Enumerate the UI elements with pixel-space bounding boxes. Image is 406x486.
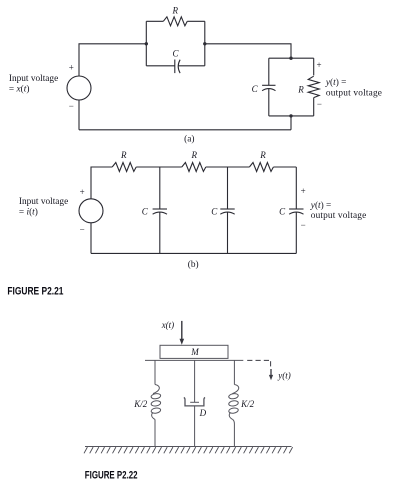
- svg-text:+: +: [317, 60, 322, 70]
- svg-text:y(t) =: y(t) =: [310, 200, 332, 211]
- svg-text:C: C: [252, 84, 259, 94]
- svg-text:FIGURE P2.21: FIGURE P2.21: [7, 285, 64, 297]
- wire: [145, 21, 147, 66]
- label Input voltage = x(t): [9, 74, 58, 95]
- svg-text:K/2: K/2: [133, 399, 148, 409]
- right rod lower: [233, 419, 235, 446]
- svg-text:x(t): x(t): [161, 320, 175, 330]
- wire: [178, 65, 205, 67]
- wire: [295, 167, 297, 209]
- node junction dot: [203, 42, 206, 45]
- svg-text:output voltage: output voltage: [326, 88, 382, 98]
- wire: [159, 167, 161, 209]
- ground hatching: [84, 447, 293, 453]
- wire: [146, 65, 175, 67]
- svg-text:= i(t): = i(t): [19, 207, 38, 218]
- capacitor C (a) parallel bottom: [175, 60, 180, 74]
- wire: [295, 212, 297, 253]
- capacitor C2 (b): [220, 209, 234, 214]
- wire: [146, 20, 163, 22]
- svg-text:R: R: [120, 150, 127, 160]
- svg-text:−: −: [317, 99, 322, 109]
- wire: [268, 58, 270, 85]
- svg-text:y(t): y(t): [277, 370, 291, 380]
- wire: [79, 44, 146, 76]
- wire: [204, 21, 206, 66]
- node junction dot: [289, 57, 292, 60]
- svg-text:R: R: [191, 150, 198, 160]
- svg-text:R: R: [172, 6, 179, 16]
- wire: [79, 129, 291, 131]
- capacitor C3 (b) output: [289, 209, 303, 214]
- left spring K/2: [151, 385, 161, 420]
- wire: [269, 57, 314, 59]
- svg-text:= x(t): = x(t): [9, 83, 30, 94]
- wire: [227, 167, 229, 209]
- wire: [159, 212, 161, 253]
- capacitor C (a) output: [262, 85, 275, 90]
- y(t) arrow shaft: [270, 369, 272, 376]
- svg-text:−: −: [80, 225, 85, 235]
- svg-text:R: R: [259, 150, 266, 160]
- svg-text:K/2: K/2: [240, 399, 255, 409]
- svg-text:C: C: [172, 48, 179, 58]
- label y(t) = output voltage (b): [310, 200, 367, 221]
- source (b) input i(t): [79, 199, 103, 223]
- svg-text:R: R: [297, 85, 304, 95]
- middle rod upper: [194, 360, 196, 402]
- svg-text:(a): (a): [184, 134, 194, 145]
- resistor R3 (b): [249, 163, 273, 172]
- dashed displacement line: [247, 359, 270, 361]
- svg-text:+: +: [69, 62, 74, 72]
- svg-text:output voltage: output voltage: [311, 211, 367, 221]
- wire: [187, 20, 205, 22]
- left rod upper: [154, 360, 156, 384]
- middle rod lower: [194, 406, 196, 446]
- svg-text:M: M: [190, 347, 199, 357]
- svg-text:−: −: [301, 220, 306, 230]
- svg-text:C: C: [279, 206, 286, 216]
- svg-text:(b): (b): [188, 259, 199, 270]
- wire: [206, 166, 250, 168]
- resistor R (a) parallel top: [163, 17, 187, 26]
- label y(t) = output voltage (a): [325, 77, 382, 98]
- input arrow x(t) shaft: [181, 321, 183, 340]
- wire: [290, 116, 292, 130]
- platform line: [145, 359, 243, 361]
- wire: [227, 212, 229, 253]
- right rod upper: [233, 360, 235, 384]
- ground line: [85, 446, 292, 448]
- wire: [268, 89, 270, 116]
- svg-text:+: +: [80, 187, 85, 197]
- y(t) arrow head: [269, 375, 273, 380]
- svg-text:+: +: [301, 186, 306, 196]
- source Vs (a) input voltage x(t): [67, 76, 91, 100]
- right spring K/2: [228, 385, 238, 420]
- wire: [90, 223, 92, 254]
- wire: [91, 252, 296, 254]
- svg-text:FIGURE P2.22: FIGURE P2.22: [85, 470, 138, 483]
- wire: [205, 44, 291, 58]
- wire: [269, 115, 314, 117]
- dashpot piston: [190, 401, 199, 403]
- dashpot cup D: [184, 398, 205, 406]
- dashed vertical segment: [270, 361, 272, 366]
- svg-text:C: C: [211, 206, 218, 216]
- wire: [136, 166, 182, 168]
- resistor R (a) output: [308, 76, 319, 97]
- wire: [78, 100, 80, 130]
- mass M box: [160, 345, 228, 358]
- svg-text:−: −: [69, 101, 74, 111]
- svg-text:D: D: [199, 408, 207, 418]
- svg-text:y(t) =: y(t) =: [325, 77, 347, 88]
- wire: [273, 166, 296, 168]
- svg-text:Input voltage: Input voltage: [19, 197, 68, 207]
- input arrow x(t) head: [180, 339, 185, 345]
- wire: [313, 58, 315, 75]
- left rod lower: [154, 419, 156, 446]
- wire: [313, 98, 315, 116]
- svg-text:Input voltage: Input voltage: [9, 74, 58, 84]
- resistor R2 (b): [182, 163, 206, 172]
- label Input voltage = i(t): [19, 197, 68, 218]
- svg-text:C: C: [142, 206, 149, 216]
- node junction dot: [145, 42, 148, 45]
- node junction dot: [289, 114, 292, 117]
- resistor R1 (b): [112, 163, 136, 172]
- wire: [91, 167, 112, 199]
- capacitor C1 (b): [153, 209, 167, 214]
